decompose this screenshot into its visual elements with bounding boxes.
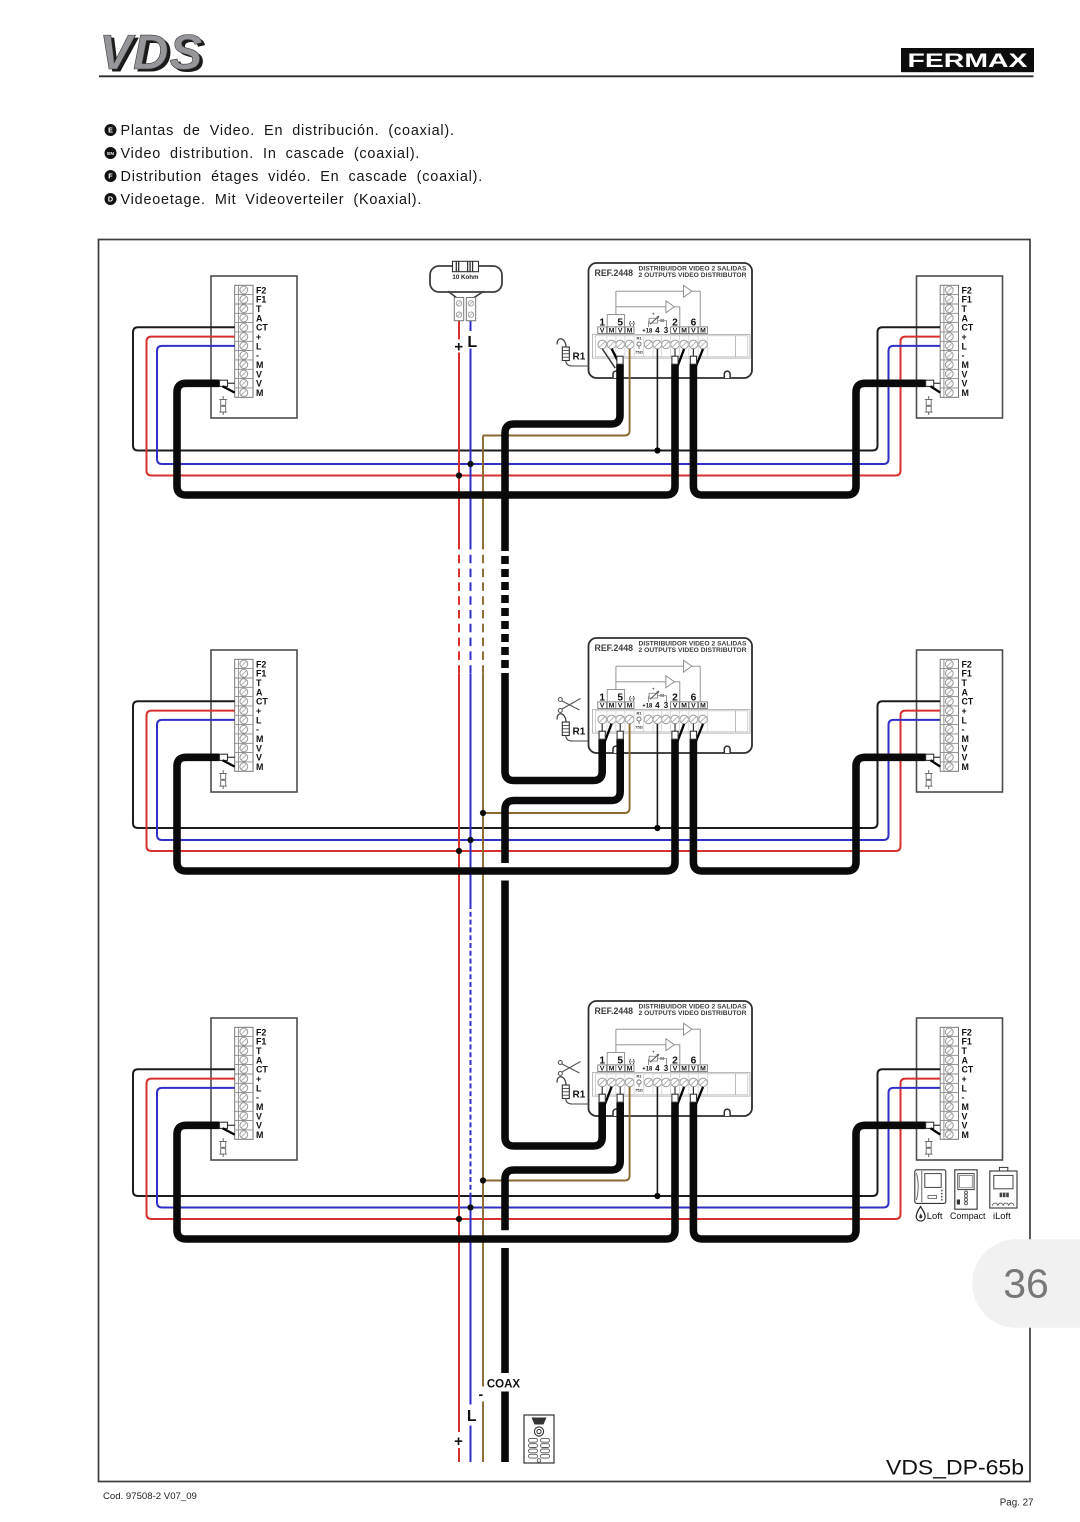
svg-text:(-): (-)	[629, 696, 635, 702]
svg-text:M: M	[962, 762, 969, 772]
svg-text:V: V	[600, 1066, 605, 1073]
svg-text:1: 1	[599, 1055, 605, 1066]
svg-text:Distribution étages vidéo. En: Distribution étages vidéo. En cascade (c…	[121, 169, 484, 185]
svg-text:DISTRIBUIDOR VIDEO 2 SALIDAS: DISTRIBUIDOR VIDEO 2 SALIDAS	[639, 1005, 747, 1011]
svg-text:COAX: COAX	[487, 1379, 521, 1391]
svg-text:M: M	[609, 703, 615, 710]
svg-text:V: V	[618, 328, 623, 335]
svg-text:4: 4	[655, 326, 660, 335]
svg-text:+18: +18	[642, 1067, 653, 1073]
svg-text:E: E	[108, 126, 113, 135]
svg-text:iLoft: iLoft	[993, 1210, 1011, 1221]
svg-text:V: V	[691, 1066, 696, 1073]
svg-text:6: 6	[691, 692, 697, 703]
svg-text:L: L	[467, 334, 477, 351]
svg-text:R1: R1	[573, 1090, 586, 1101]
svg-text:1: 1	[599, 317, 605, 328]
svg-text:R1: R1	[573, 352, 586, 363]
svg-text:M: M	[700, 328, 706, 335]
svg-text:6: 6	[691, 317, 697, 328]
svg-text:M: M	[256, 1130, 263, 1140]
svg-text:VDS_DP-65b: VDS_DP-65b	[886, 1457, 1024, 1480]
svg-text:M: M	[627, 703, 633, 710]
svg-text:M: M	[681, 328, 687, 335]
svg-text:M: M	[962, 1130, 969, 1140]
svg-text:75Ω: 75Ω	[635, 725, 643, 730]
svg-text:Compact: Compact	[950, 1210, 986, 1221]
svg-text:V: V	[618, 703, 623, 710]
svg-text:L: L	[467, 1408, 477, 1425]
svg-text:36: 36	[1003, 1261, 1049, 1307]
svg-text:4: 4	[655, 1064, 660, 1073]
svg-text:R1: R1	[636, 711, 642, 716]
svg-text:Cod. 97508-2 V07_09: Cod. 97508-2 V07_09	[103, 1491, 197, 1502]
svg-text:M: M	[256, 388, 263, 398]
svg-text:Loft: Loft	[927, 1210, 943, 1221]
svg-text:M: M	[700, 1066, 706, 1073]
svg-text:V: V	[673, 328, 678, 335]
svg-text:5: 5	[617, 317, 623, 328]
svg-text:+: +	[454, 1433, 463, 1450]
svg-text:2: 2	[672, 1055, 678, 1066]
svg-text:6: 6	[691, 1055, 697, 1066]
svg-text:+18: +18	[642, 704, 653, 710]
svg-text:3: 3	[664, 326, 669, 335]
svg-text:1: 1	[599, 692, 605, 703]
svg-text:REF.2448: REF.2448	[595, 268, 634, 278]
svg-text:REF.2448: REF.2448	[595, 1006, 634, 1016]
svg-text:D: D	[108, 195, 113, 204]
svg-text:M: M	[627, 328, 633, 335]
svg-text:V: V	[691, 328, 696, 335]
svg-text:-: -	[478, 1386, 483, 1402]
svg-text:75Ω: 75Ω	[635, 350, 643, 355]
svg-text:3: 3	[664, 701, 669, 710]
svg-text:M: M	[962, 388, 969, 398]
svg-text:V: V	[600, 703, 605, 710]
svg-text:(-): (-)	[629, 321, 635, 327]
svg-text:V: V	[618, 1066, 623, 1073]
svg-text:M: M	[609, 328, 615, 335]
svg-text:R1: R1	[636, 1074, 642, 1079]
svg-text:R1: R1	[573, 727, 586, 738]
svg-text:75Ω: 75Ω	[635, 1088, 643, 1093]
svg-text:V: V	[673, 703, 678, 710]
svg-text:+: +	[652, 312, 655, 317]
svg-text:4: 4	[655, 701, 660, 710]
svg-text:DISTRIBUIDOR VIDEO 2 SALIDAS: DISTRIBUIDOR VIDEO 2 SALIDAS	[639, 267, 747, 273]
svg-text:V: V	[673, 1066, 678, 1073]
svg-text:Videoetage. Mit Videoverteiler: Videoetage. Mit Videoverteiler (Koaxial)…	[121, 192, 423, 208]
svg-text:+: +	[454, 339, 463, 356]
svg-text:+: +	[652, 687, 655, 692]
svg-text:5: 5	[617, 1055, 623, 1066]
svg-text:F: F	[108, 172, 113, 181]
svg-text:M: M	[627, 1066, 633, 1073]
svg-text:M: M	[609, 1066, 615, 1073]
svg-text:R1: R1	[636, 336, 642, 341]
svg-text:V: V	[600, 328, 605, 335]
svg-text:M: M	[681, 703, 687, 710]
svg-text:2 OUTPUTS VIDEO DISTRIBUTOR: 2 OUTPUTS VIDEO DISTRIBUTOR	[639, 273, 748, 279]
svg-text:M: M	[700, 703, 706, 710]
svg-text:REF.2448: REF.2448	[595, 643, 634, 653]
svg-text:V: V	[691, 703, 696, 710]
svg-text:5: 5	[617, 692, 623, 703]
svg-text:2: 2	[672, 692, 678, 703]
svg-text:Pag. 27: Pag. 27	[1000, 1498, 1034, 1509]
svg-text:Plantas de Video. En distribuc: Plantas de Video. En distribución. (coax…	[121, 123, 455, 139]
svg-text:+: +	[652, 1050, 655, 1055]
svg-text:2: 2	[672, 317, 678, 328]
svg-text:EN: EN	[107, 151, 114, 157]
svg-text:M: M	[681, 1066, 687, 1073]
svg-text:2 OUTPUTS VIDEO DISTRIBUTOR: 2 OUTPUTS VIDEO DISTRIBUTOR	[639, 648, 748, 654]
svg-text:DISTRIBUIDOR VIDEO 2 SALIDAS: DISTRIBUIDOR VIDEO 2 SALIDAS	[639, 642, 747, 648]
svg-text:(-): (-)	[629, 1059, 635, 1065]
svg-text:2 OUTPUTS VIDEO DISTRIBUTOR: 2 OUTPUTS VIDEO DISTRIBUTOR	[639, 1011, 748, 1017]
svg-text:VDS: VDS	[100, 26, 204, 80]
svg-text:FERMAX: FERMAX	[908, 51, 1028, 72]
svg-text:Video distribution. In cascade: Video distribution. In cascade (coaxial)…	[121, 146, 421, 162]
svg-text:M: M	[256, 762, 263, 772]
svg-text:+18: +18	[642, 329, 653, 335]
svg-text:10 Kohm: 10 Kohm	[452, 274, 479, 281]
svg-text:3: 3	[664, 1064, 669, 1073]
